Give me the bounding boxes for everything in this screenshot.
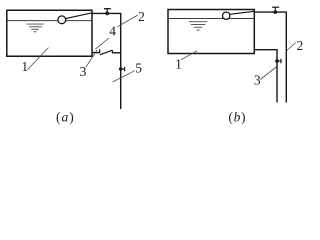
svg-text:1: 1 <box>21 59 28 74</box>
valve 5 on down pipe A <box>119 67 125 71</box>
water surface line B <box>169 18 254 20</box>
svg-text:4: 4 <box>109 24 116 39</box>
labels B <box>175 38 303 88</box>
inlet pipe A (top horizontal + down pipe 2) <box>92 13 121 109</box>
inlet valve A on top pipe <box>104 9 111 16</box>
leader lines A <box>27 15 138 82</box>
svg-text:1: 1 <box>175 57 182 72</box>
valve 3 on branch pipe B <box>275 59 281 63</box>
leader lines B <box>181 43 296 80</box>
tank A outline <box>7 10 92 56</box>
inlet valve B on top pipe <box>272 7 279 14</box>
labels A <box>21 9 144 79</box>
svg-text:3: 3 <box>254 73 261 88</box>
water surface symbol A <box>27 24 44 32</box>
float lever A <box>66 13 92 19</box>
branch outlet pipe B <box>254 50 277 103</box>
float ball A <box>58 16 66 24</box>
tank B outline <box>168 10 254 54</box>
float ball B <box>223 12 230 19</box>
branch pipe with float-valve break (items 3,4) <box>92 49 121 55</box>
svg-text:3: 3 <box>80 64 87 79</box>
water surface symbol B <box>189 22 207 30</box>
svg-text:2: 2 <box>297 38 304 53</box>
svg-text:(b): (b) <box>228 110 246 125</box>
svg-text:2: 2 <box>138 9 145 24</box>
svg-text:5: 5 <box>135 60 142 75</box>
water surface line A <box>8 20 92 22</box>
float lever B <box>230 11 255 14</box>
inlet pipe B (top horizontal + down pipe 2) <box>254 12 286 102</box>
svg-text:(a): (a) <box>56 110 75 125</box>
